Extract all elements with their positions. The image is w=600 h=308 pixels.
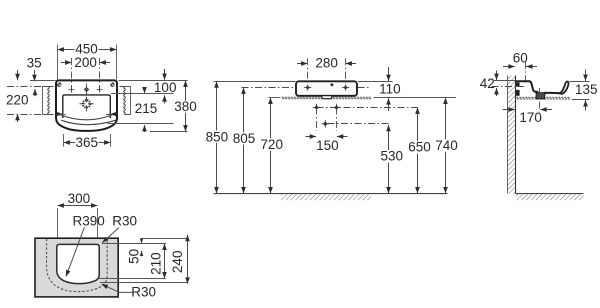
wall back line (507, 76, 509, 194)
centerline faucet vertical (85, 84, 87, 112)
floor line side (516, 193, 584, 195)
centerline drain horizontal (328, 123, 390, 125)
drain notch (322, 96, 332, 98)
extension basin bottom right (150, 131, 188, 133)
svg-text:210: 210 (149, 252, 164, 275)
faucet hole front right (342, 84, 349, 90)
extension deck top left (493, 80, 516, 82)
extension basin top left (214, 81, 296, 83)
dim 850 label (205, 131, 229, 144)
svg-text:720: 720 (260, 137, 283, 152)
screw right (110, 83, 115, 88)
shelf bar front (282, 97, 372, 100)
wall face line (515, 76, 517, 194)
dim 150 right arrow (337, 136, 348, 138)
dim 170 right arrow (540, 109, 552, 111)
dim 280 right arrow (346, 63, 357, 65)
dim 50 line (141, 239, 143, 243)
dim 650 line (417, 108, 419, 194)
faucet target symbol (79, 97, 93, 111)
svg-text:300: 300 (68, 191, 91, 206)
centerline clips horizontal left (7, 114, 54, 116)
svg-text:805: 805 (233, 131, 256, 146)
dim 805 label (232, 132, 256, 145)
svg-text:220: 220 (6, 93, 29, 108)
extension bowl top right (111, 93, 174, 95)
centerline mounting horizontal (492, 86, 525, 88)
svg-text:R30: R30 (112, 213, 137, 228)
svg-text:42: 42 (480, 76, 495, 91)
svg-text:200: 200 (74, 55, 97, 70)
dim 220 top arrow (17, 70, 19, 80)
centerline tap vertical (525, 62, 527, 84)
leader R390 (66, 228, 84, 277)
dim 530 label (380, 150, 404, 163)
fixing clip right (110, 112, 117, 117)
extension basin top right (119, 80, 188, 82)
extension bowl bottom right (108, 123, 174, 125)
dim 365 extension left (63, 134, 65, 147)
basin outline top view (56, 80, 117, 130)
centerline 805 left (242, 87, 297, 89)
centerline screws horizontal right stub (120, 86, 132, 88)
faucet hole mark left (69, 87, 75, 93)
dim 42 bottom arrow (496, 88, 498, 96)
shelf stub line left (269, 97, 281, 99)
wall break band left (43, 87, 50, 115)
screw left (57, 83, 62, 88)
dim 215 top arrow (144, 87, 146, 93)
svg-text:R390: R390 (72, 213, 104, 228)
basin front inner edge arc lower (61, 120, 115, 124)
dim 740 line (445, 98, 447, 194)
extension block top right (142, 238, 189, 240)
extension bowl top right (102, 243, 166, 245)
outer shell dashed contour (47, 239, 108, 292)
centerline screws horizontal (7, 86, 54, 88)
dim 530 line (388, 125, 390, 193)
dim 240 line (187, 235, 189, 284)
fixing clip left (56, 112, 63, 117)
dim 365 line (64, 142, 111, 144)
dim 35 bottom arrow (34, 89, 36, 96)
basin profile side (515, 81, 559, 95)
dim 170 left arrow (503, 109, 515, 111)
dim 280 left arrow (297, 63, 308, 65)
faucet hole front left (304, 84, 311, 90)
centerline hole left vertical (71, 58, 73, 93)
dim 365 label (75, 137, 99, 149)
shelf bottom line right (374, 97, 456, 99)
faucet hole mark right (97, 87, 103, 93)
basin front inner edge arc upper (59, 114, 114, 120)
extension bowl bottom right (97, 278, 166, 280)
dim 35 top arrow (34, 70, 36, 81)
extension line basin top left (30, 80, 56, 82)
dim 720 label (260, 138, 284, 151)
svg-text:170: 170 (519, 110, 542, 125)
dim 300 line (58, 205, 98, 207)
dim 200 right arrow (100, 62, 111, 64)
centerline hole right vertical (99, 58, 101, 93)
centerline supply horizontal (317, 107, 420, 109)
dim 450 label (75, 44, 99, 55)
dim 100 top arrow (164, 69, 166, 80)
centerline faucet left vertical (307, 58, 309, 84)
dim 135 bottom arrow (585, 100, 587, 110)
dim 110 top arrow (388, 67, 390, 81)
dim 450 extension line right (116, 45, 118, 80)
drain diamond (322, 120, 330, 128)
svg-text:100: 100 (154, 80, 177, 95)
dim 215 bottom arrow (144, 125, 146, 132)
dim 450 line (58, 49, 117, 51)
wall hatch side (508, 76, 516, 194)
floor hatch side (516, 194, 584, 200)
basin front rect (296, 81, 357, 96)
overflow diamond front (330, 83, 334, 87)
floor line front (214, 193, 448, 195)
supply diamond left (313, 104, 321, 112)
dim 200 left arrow (61, 62, 72, 64)
dim 850 line (216, 81, 218, 193)
svg-text:530: 530 (381, 149, 404, 164)
svg-text:365: 365 (76, 135, 99, 150)
supply diamond right (333, 104, 341, 112)
svg-text:35: 35 (27, 56, 42, 71)
extension bar bottom right (572, 99, 590, 101)
svg-text:150: 150 (316, 138, 339, 153)
svg-text:110: 110 (379, 82, 401, 97)
dim 240 bottom extension (100, 282, 188, 284)
centerline drain vertical side (539, 88, 541, 111)
inner bowl outline top view (63, 95, 111, 118)
dim 150 left arrow (306, 136, 317, 138)
dim 365 extension right (110, 134, 112, 147)
leader R30 bottom (102, 284, 134, 292)
centerline supply left vertical (316, 108, 318, 132)
dim 220 bottom arrow (17, 114, 19, 122)
dim 42 top arrow (496, 71, 498, 81)
leader R30 top (102, 228, 119, 243)
dim 60 right arrow (526, 66, 537, 68)
dim 210 line (164, 244, 166, 279)
dim 805 line (243, 88, 245, 194)
svg-text:135: 135 (575, 82, 598, 97)
overflow diamond top view (84, 86, 89, 94)
extension basin top right (358, 81, 393, 83)
dim 100 bottom arrow (164, 95, 166, 103)
svg-text:380: 380 (174, 99, 197, 114)
svg-text:280: 280 (315, 55, 338, 70)
wall break band right (124, 87, 131, 115)
dim 300 extension left (57, 208, 59, 244)
svg-text:850: 850 (206, 129, 229, 144)
floor hatch front (281, 194, 371, 200)
dim 650 label (408, 141, 432, 154)
drain trap block (536, 93, 545, 99)
bowl cavity (57, 244, 99, 283)
svg-text:R30: R30 (131, 285, 156, 300)
dim 60 left arrow (503, 66, 515, 68)
dim 740 label (435, 139, 459, 152)
svg-text:650: 650 (408, 140, 431, 155)
dim 300 extension right (97, 208, 99, 244)
centerline through clips (55, 114, 68, 116)
svg-text:740: 740 (435, 138, 458, 153)
dim 450 extension line left (57, 45, 59, 80)
extension hook top right (570, 81, 590, 83)
dim 380 label (175, 101, 197, 113)
centerline supply right vertical (336, 108, 338, 132)
centerline faucet right vertical (345, 58, 347, 84)
dim 110 bottom arrow (388, 98, 390, 111)
centerline 805 right stub (358, 87, 369, 89)
dim 135 top arrow (585, 70, 587, 81)
dim 380 line (185, 81, 187, 132)
mounting bolt block (516, 82, 520, 95)
cut block (35, 238, 118, 297)
svg-text:240: 240 (170, 251, 185, 274)
front rim hook side (560, 81, 569, 93)
svg-text:50: 50 (126, 249, 141, 264)
shelf dotted bar side (516, 97, 570, 100)
dim 720 line (270, 98, 272, 194)
svg-text:215: 215 (135, 101, 158, 116)
